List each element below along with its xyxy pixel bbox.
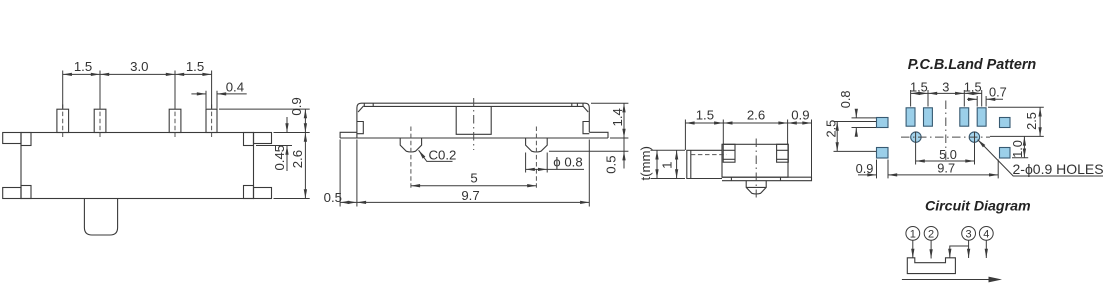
dimension line 0.9 base bbox=[788, 122, 812, 124]
right top lug bbox=[777, 144, 789, 162]
left top lug bbox=[723, 144, 735, 162]
pad bottom-left bbox=[877, 148, 889, 159]
dimension line 3.0 pin2-pin3 bbox=[100, 73, 175, 75]
0.7 extension pad4 right edge bbox=[985, 96, 987, 107]
0.4 dimension arrow right bbox=[217, 93, 247, 95]
dimension line 1.5 pin1-pin2 bbox=[63, 73, 100, 75]
pin 1 centerline bbox=[62, 105, 64, 138]
svg-text:0.9: 0.9 bbox=[289, 97, 304, 115]
slide direction arrow bbox=[902, 279, 990, 281]
0.5 right dimension tail with arrow bbox=[623, 151, 625, 168]
extension line tab bottom right bbox=[256, 145, 292, 147]
0.9 arrow line bbox=[858, 174, 877, 176]
top dim extension knob left bbox=[684, 120, 686, 151]
svg-text:0.9: 0.9 bbox=[791, 107, 809, 122]
vertical centerline bbox=[755, 139, 757, 198]
0.4 extension line pin4 left edge bbox=[205, 91, 207, 109]
pin 2 centerline bbox=[99, 105, 101, 138]
mounting tab bottom-left outer bbox=[3, 188, 21, 199]
pin 1 circle bbox=[906, 227, 920, 241]
base plate division left bbox=[730, 177, 732, 181]
left lug inner line upper bbox=[723, 149, 735, 151]
svg-text:0.45: 0.45 bbox=[272, 145, 287, 171]
bump centerline bbox=[473, 98, 475, 150]
mounting tab bottom-left inner square bbox=[21, 186, 31, 199]
pad dim extension pin4 bbox=[981, 90, 983, 107]
pin 3 centerline bbox=[174, 105, 176, 138]
hole left bbox=[911, 132, 921, 142]
pin3 bent connection bbox=[950, 246, 969, 258]
svg-text:2: 2 bbox=[928, 228, 934, 240]
0.4 dimension arrow left bbox=[191, 93, 206, 95]
svg-text:1: 1 bbox=[660, 162, 675, 169]
svg-text:2.6: 2.6 bbox=[290, 150, 305, 168]
dimension line 1.5 pin3-pin4 bbox=[175, 73, 212, 75]
left cover edge with corner bbox=[357, 103, 589, 138]
0.7 extension pad4 left edge bbox=[976, 96, 978, 107]
dimension line 1.0 bbox=[1023, 136, 1025, 157]
5.0 extension hole right bbox=[974, 132, 976, 165]
cover center bump bbox=[456, 106, 491, 134]
mounting tab bottom-right outer bbox=[254, 188, 272, 199]
pad top-left bbox=[877, 118, 889, 128]
dimension line 2.6 body bbox=[723, 122, 787, 124]
0.8 arrow lower bbox=[855, 128, 857, 136]
left foot centerline bbox=[410, 127, 412, 189]
pin3 arrow down bbox=[968, 240, 970, 258]
1.4 extension line body bottom bbox=[610, 137, 628, 139]
pin4 arrow down bbox=[985, 240, 987, 258]
t extension line knob top bbox=[651, 149, 686, 151]
9.7 extension right pad bbox=[997, 160, 999, 179]
pad pin1 bbox=[906, 108, 915, 126]
right foot centerline bbox=[535, 127, 537, 189]
pin1 arrow to slider bbox=[912, 240, 914, 258]
dimension line 9.7 bbox=[888, 174, 998, 176]
mounting tab top-right outer bbox=[254, 133, 272, 144]
phi0.8 extension line foot left bbox=[525, 153, 527, 173]
svg-text:9.7: 9.7 bbox=[461, 188, 479, 203]
right corner seam diagonal bbox=[583, 106, 589, 112]
terminal pin 3 bbox=[169, 109, 181, 132]
t(mm) dimension line bbox=[656, 150, 658, 178]
svg-text:4: 4 bbox=[983, 228, 989, 240]
svg-text:1.5: 1.5 bbox=[964, 79, 982, 94]
mounting tab top-right inner square bbox=[244, 133, 254, 146]
pad pin4 bbox=[977, 108, 986, 126]
slider contact bracket bbox=[907, 258, 955, 274]
svg-text:0.9: 0.9 bbox=[856, 161, 874, 176]
0.45 dimension upper arrow bbox=[286, 117, 288, 133]
5.0 extension hole left bbox=[915, 132, 917, 165]
9.7 extension line left body edge bbox=[356, 140, 358, 207]
svg-text:C0.2: C0.2 bbox=[429, 147, 457, 162]
svg-text:1.5: 1.5 bbox=[186, 59, 204, 74]
dimension line 1.5 pads bbox=[911, 92, 928, 94]
2.5 extension line pad center bottom bbox=[834, 150, 877, 152]
right lug inner line upper bbox=[777, 149, 789, 151]
svg-text:1.0: 1.0 bbox=[1010, 140, 1025, 158]
svg-text:0.7: 0.7 bbox=[989, 84, 1007, 99]
0.45 dimension lower arrow bbox=[286, 146, 288, 172]
svg-text:3.0: 3.0 bbox=[130, 59, 148, 74]
extension line pin top level right bbox=[219, 108, 310, 110]
0.5 extension line foot bottom right bbox=[549, 150, 628, 152]
svg-text:5: 5 bbox=[470, 170, 477, 185]
extension line body top right bbox=[274, 132, 310, 134]
bottom solder foot bbox=[746, 181, 766, 194]
C0.2 leader arrow bbox=[419, 150, 453, 161]
left lug inner line lower bbox=[723, 158, 735, 160]
cover lid slot tick left bbox=[372, 103, 374, 106]
hole right bbox=[969, 132, 979, 142]
svg-text:1.4: 1.4 bbox=[610, 108, 625, 126]
svg-text:ϕ 0.8: ϕ 0.8 bbox=[553, 154, 582, 169]
extension line body bottom right bbox=[274, 198, 310, 200]
0.5 dimension line left bbox=[340, 201, 357, 203]
dimension line 1.4 height bbox=[623, 103, 625, 138]
base plate division right bbox=[780, 177, 782, 181]
pad bottom-right bbox=[1000, 148, 1011, 159]
svg-text:1: 1 bbox=[910, 228, 916, 240]
pitch dimension extension line pin3 bbox=[174, 71, 176, 109]
knob hidden dashed centerline bbox=[691, 154, 727, 156]
top dim extension body right bbox=[787, 120, 789, 145]
svg-text:1.5: 1.5 bbox=[910, 79, 928, 94]
foot chamfer line bbox=[746, 186, 766, 188]
pin 4 circle bbox=[979, 227, 993, 241]
right cover bent tab bbox=[583, 122, 589, 134]
svg-text:0.5: 0.5 bbox=[324, 190, 342, 205]
2.5 extension line pad center top bbox=[834, 121, 877, 123]
pitch dimension extension line pin4 bbox=[211, 71, 213, 109]
top dim extension base right bbox=[811, 120, 813, 177]
svg-text:Circuit Diagram: Circuit Diagram bbox=[925, 198, 1031, 214]
pad dim extension pin1 bbox=[910, 90, 912, 107]
pin2 arrow to slider bbox=[930, 240, 932, 258]
dimension line 2.5 left bbox=[836, 122, 838, 152]
1.0 extension pad bottom level bbox=[1012, 157, 1028, 159]
9.7 extension pad left bbox=[876, 160, 878, 179]
horizontal centerline through holes bbox=[901, 136, 990, 138]
mounting tab bottom-right inner square bbox=[244, 186, 254, 199]
phi0.8 dimension tail bbox=[547, 168, 584, 170]
0.8 arrow upper bbox=[855, 110, 857, 118]
pad pin2 bbox=[924, 108, 933, 126]
svg-text:1.5: 1.5 bbox=[74, 59, 92, 74]
terminal pin 4 bbox=[206, 109, 217, 132]
cover lid slot tick right a bbox=[571, 103, 573, 106]
svg-text:3: 3 bbox=[966, 228, 972, 240]
9.7 extension line right body edge bbox=[588, 140, 590, 207]
slide direction arrowhead bbox=[989, 277, 1003, 283]
dimension line 2.5 right bbox=[1039, 107, 1041, 136]
left cover bent tab bbox=[357, 122, 363, 134]
pad top-right bbox=[1000, 118, 1011, 128]
base bottom line bbox=[340, 137, 608, 139]
dimension line 1.5 pads right bbox=[964, 92, 981, 94]
svg-text:9.7: 9.7 bbox=[937, 160, 955, 175]
pitch dimension extension line pin1 bbox=[62, 71, 64, 109]
body outline bbox=[722, 144, 788, 177]
switch body outline bbox=[21, 133, 254, 199]
dimension line 1 knob thickness bbox=[676, 150, 678, 178]
right lug inner line lower bbox=[777, 158, 789, 160]
0.8 extension line pad top bbox=[852, 117, 877, 119]
pad dim extension pin2 bbox=[927, 90, 929, 107]
svg-text:2.6: 2.6 bbox=[747, 107, 765, 122]
0.8 extension line pad bottom bbox=[852, 127, 877, 129]
pad pin3 bbox=[960, 108, 969, 126]
left solder foot bbox=[400, 138, 421, 152]
slider knob bbox=[84, 199, 117, 236]
cover inner top line bbox=[364, 103, 583, 106]
phi0.8 extension line foot right bbox=[546, 153, 548, 173]
svg-text:P.C.B.Land Pattern: P.C.B.Land Pattern bbox=[908, 57, 1037, 73]
top dim extension body left bbox=[722, 120, 724, 145]
base plate bbox=[722, 177, 812, 181]
dimension line 0.9 pin protrusion bbox=[304, 109, 306, 132]
svg-text:2.5: 2.5 bbox=[1024, 112, 1039, 130]
svg-text:0.5: 0.5 bbox=[603, 155, 618, 173]
vertical centerline bbox=[945, 101, 947, 161]
left corner seam diagonal bbox=[358, 106, 364, 112]
dimension line 3 pads bbox=[928, 92, 964, 94]
centerline extension right bbox=[990, 135, 1044, 137]
mounting tab top-left outer bbox=[3, 133, 21, 144]
dimension line 1.5 knob bbox=[685, 122, 723, 124]
svg-text:2.5: 2.5 bbox=[824, 120, 839, 138]
0.7 arrow right with tail bbox=[986, 98, 1003, 100]
cover lid slot tick right b bbox=[576, 103, 578, 106]
dimension line 9.7 body length bbox=[357, 201, 589, 203]
pin 2 circle bbox=[924, 227, 938, 241]
pitch dimension extension line pin2 bbox=[99, 71, 101, 109]
terminal pin 1 bbox=[57, 109, 69, 132]
1.4 extension line cover top bbox=[591, 102, 628, 104]
holes leader line bbox=[978, 140, 1103, 176]
right solder foot bbox=[526, 138, 548, 152]
dimension line 2.6 body width bbox=[304, 133, 306, 199]
0.5 right dimension line bbox=[623, 138, 625, 151]
0.7 arrow left bbox=[967, 98, 977, 100]
dimension line 5.0 bbox=[916, 160, 975, 162]
mounting tab top-left inner square bbox=[21, 133, 31, 146]
phi0.8 dimension line bbox=[526, 168, 548, 170]
pad dim extension pin3 bbox=[963, 90, 965, 107]
svg-text:0.8: 0.8 bbox=[838, 91, 853, 109]
9.7 extension line left flange edge bbox=[339, 140, 341, 207]
pin 3 circle bbox=[962, 227, 976, 241]
svg-text:1.5: 1.5 bbox=[696, 107, 714, 122]
dimension line 5 between feet bbox=[411, 185, 537, 187]
svg-text:2-ϕ0.9 HOLES: 2-ϕ0.9 HOLES bbox=[1013, 161, 1104, 177]
terminal pin 2 bbox=[94, 109, 106, 132]
right base flange bbox=[589, 132, 608, 138]
svg-text:0.4: 0.4 bbox=[226, 80, 244, 95]
left base flange bbox=[340, 132, 357, 138]
2.5 right extension pad top level bbox=[988, 106, 1044, 108]
slider knob left bbox=[687, 150, 722, 178]
pin 4 centerline bbox=[211, 105, 213, 138]
t extension line knob bottom bbox=[651, 178, 686, 180]
svg-text:t(mm): t(mm) bbox=[638, 146, 653, 180]
knob inner face line bbox=[690, 150, 692, 178]
9.7 extension pad right bbox=[887, 160, 889, 179]
0.4 extension line pin4 right edge bbox=[216, 91, 218, 109]
svg-text:3: 3 bbox=[942, 79, 949, 94]
